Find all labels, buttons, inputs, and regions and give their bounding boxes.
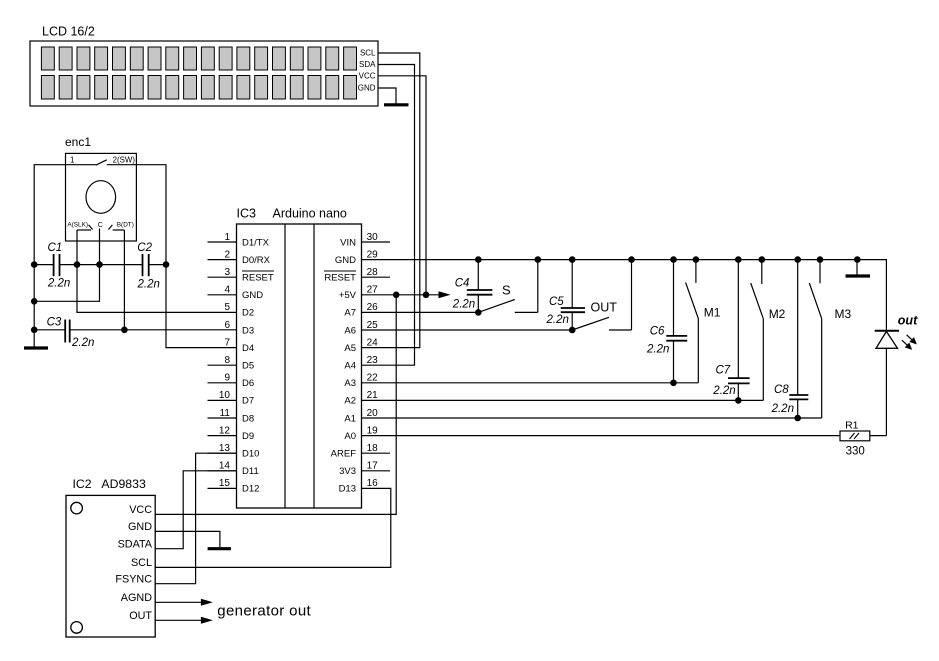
junction dots on D3 net	[31, 327, 38, 334]
IC3 right pin 28 RESET	[362, 276, 391, 278]
svg-text:SCL: SCL	[131, 557, 152, 569]
capacitor C2	[142, 254, 144, 276]
svg-text:D9: D9	[242, 431, 254, 442]
junction dots C7 M2	[735, 256, 742, 263]
svg-text:GND: GND	[242, 290, 263, 301]
wire A1 to M3	[362, 417, 822, 419]
svg-text:D7: D7	[242, 396, 254, 407]
wire IC2 OUT output arrow	[155, 619, 201, 621]
wire encoder A to IC3 D2	[77, 230, 237, 312]
junction dots on +5V wire	[393, 292, 400, 299]
svg-text:15: 15	[219, 478, 231, 489]
svg-text:2.2n: 2.2n	[646, 343, 669, 355]
svg-text:LCD 16/2: LCD 16/2	[42, 25, 95, 39]
wire LCD VCC to +5V net	[378, 76, 426, 295]
svg-text:D10: D10	[242, 449, 259, 460]
svg-text:A4: A4	[344, 361, 356, 372]
svg-text:FSYNC: FSYNC	[115, 573, 152, 585]
svg-text:generator out: generator out	[217, 603, 311, 620]
svg-text:20: 20	[367, 408, 379, 419]
wire C net to C2	[100, 264, 143, 266]
wire encoder pin1 to left ground rail	[34, 165, 96, 347]
IC3 left pin 14 D11	[208, 470, 237, 472]
junction dots C8 M3	[794, 256, 801, 263]
svg-text:22: 22	[367, 373, 379, 384]
svg-text:2(SW): 2(SW)	[113, 156, 136, 165]
wire A2 to M2	[362, 399, 764, 401]
IC3 left pin 12 D9	[208, 435, 237, 437]
resistor R1	[840, 431, 870, 441]
wire IC2 GND to ground	[155, 531, 220, 547]
IC2 AD9833 body	[66, 495, 155, 637]
capacitor C8	[797, 260, 799, 395]
svg-text:D5: D5	[242, 361, 254, 372]
svg-text:C3: C3	[47, 317, 62, 329]
wire IC2 AGND output arrow	[155, 601, 201, 603]
svg-text:AREF: AREF	[331, 449, 357, 460]
svg-text:GND: GND	[335, 255, 356, 266]
svg-text:D11: D11	[242, 466, 259, 477]
wire A7 to C4 node	[362, 311, 479, 313]
junction dots C4 S	[475, 256, 482, 263]
svg-text:1: 1	[224, 232, 230, 243]
wire C2 to right rail	[149, 264, 166, 266]
svg-text:D2: D2	[242, 308, 254, 319]
svg-text:C1: C1	[48, 242, 63, 254]
svg-text:C8: C8	[774, 384, 789, 396]
svg-text:28: 28	[367, 267, 379, 278]
svg-text:7: 7	[224, 337, 230, 348]
switch S	[478, 300, 515, 313]
svg-text:D6: D6	[242, 378, 254, 389]
wire left rail to C3	[34, 329, 65, 331]
svg-text:A5: A5	[344, 343, 356, 354]
svg-text:enc1: enc1	[65, 135, 91, 149]
wire C1 to encoder A net	[60, 264, 78, 266]
IC3 left pin 9 D6	[208, 382, 237, 384]
svg-text:2.2n: 2.2n	[71, 337, 94, 349]
svg-text:GND: GND	[128, 521, 152, 533]
IC3 right pin 18 AREF	[362, 452, 391, 454]
wire encoder A net to C net	[77, 264, 100, 266]
ground symbol on GND net	[856, 260, 858, 275]
svg-text:11: 11	[220, 408, 231, 419]
svg-text:16: 16	[367, 478, 379, 489]
svg-text:2: 2	[224, 249, 230, 260]
svg-text:2.2n: 2.2n	[47, 278, 70, 290]
IC3 left pin 10 D7	[208, 399, 237, 401]
svg-text:9: 9	[224, 373, 230, 384]
ground symbol at IC2	[208, 547, 231, 550]
svg-text:GND: GND	[358, 84, 376, 93]
IC3 left pin 2 D0/RX	[208, 259, 237, 261]
svg-text:27: 27	[367, 285, 379, 296]
svg-text:Arduino nano: Arduino nano	[273, 207, 347, 221]
svg-text:29: 29	[367, 249, 379, 260]
wire LCD SDA to IC3 A4	[362, 65, 415, 366]
svg-text:19: 19	[367, 425, 379, 436]
svg-text:C: C	[98, 222, 103, 229]
svg-text:2.2n: 2.2n	[137, 279, 160, 291]
capacitor C6	[673, 260, 675, 336]
svg-text:D13: D13	[339, 484, 356, 495]
svg-text:D3: D3	[242, 325, 254, 336]
wire GND net from IC3 pin 29 to LED	[362, 260, 887, 331]
svg-text:6: 6	[224, 320, 230, 331]
wire A6 to C5 node	[362, 329, 573, 331]
svg-text:M3: M3	[835, 307, 852, 321]
switch M3	[819, 260, 821, 284]
svg-text:D4: D4	[242, 343, 254, 354]
svg-text:AD9833: AD9833	[101, 477, 146, 491]
encoder enc1 body	[66, 153, 137, 241]
ground symbol at LCD	[384, 103, 409, 106]
svg-text:30: 30	[367, 232, 379, 243]
svg-text:2.2n: 2.2n	[452, 299, 475, 311]
encoder contact bar B	[113, 229, 125, 231]
junction dots C5 OUT	[569, 256, 576, 263]
ground symbol at left rail	[24, 346, 48, 349]
wire A3 to M1	[362, 382, 699, 384]
svg-text:C2: C2	[137, 242, 152, 254]
svg-text:2.2n: 2.2n	[712, 385, 735, 397]
svg-text:A1: A1	[344, 413, 356, 424]
svg-text:OUT: OUT	[129, 610, 152, 622]
wire LCD SCL to IC3 A5	[362, 53, 420, 348]
wire C3 to IC3 D3	[70, 329, 237, 331]
svg-text:OUT: OUT	[591, 300, 618, 314]
svg-text:C7: C7	[716, 365, 731, 377]
svg-text:2.2n: 2.2n	[546, 314, 569, 326]
svg-text:AGND: AGND	[121, 592, 152, 604]
svg-text:D0/RX: D0/RX	[242, 255, 271, 266]
capacitor C4	[477, 260, 479, 290]
svg-text:23: 23	[367, 355, 379, 366]
IC3 left pin 4 GND	[208, 294, 237, 296]
capacitor C3	[64, 320, 66, 343]
svg-text:3: 3	[224, 267, 230, 278]
wire IC2 SDATA to IC3 D11	[155, 471, 236, 549]
svg-text:RESET: RESET	[324, 273, 356, 284]
wire ground rail to C1	[34, 264, 53, 266]
svg-text:1: 1	[70, 156, 74, 165]
IC3 left pin 15 D12	[208, 487, 237, 489]
svg-text:SCL: SCL	[360, 49, 376, 58]
svg-text:C4: C4	[455, 277, 470, 289]
wire encoder C to ground rail	[34, 229, 99, 302]
svg-text:SDATA: SDATA	[118, 538, 153, 550]
svg-text:C6: C6	[650, 325, 665, 337]
svg-text:10: 10	[219, 390, 231, 401]
svg-text:S: S	[502, 283, 511, 298]
svg-text:+5V: +5V	[339, 290, 357, 301]
encoder switch lever SW	[96, 160, 107, 165]
svg-text:out: out	[898, 313, 918, 327]
svg-text:3V3: 3V3	[339, 466, 356, 477]
junction dot encoder C ground	[31, 298, 38, 305]
svg-text:M2: M2	[769, 307, 786, 321]
svg-text:12: 12	[219, 425, 231, 436]
svg-text:26: 26	[367, 302, 379, 313]
svg-text:14: 14	[219, 461, 231, 472]
svg-text:VCC: VCC	[129, 504, 152, 516]
IC3 left pin 8 D5	[208, 364, 237, 366]
switch M1	[695, 260, 697, 283]
wire encoder B down to D3 net	[123, 230, 125, 330]
encoder contact bar A	[77, 229, 91, 231]
svg-text:M1: M1	[704, 305, 721, 319]
svg-text:25: 25	[367, 320, 379, 331]
IC3 left pin 3 RESET	[208, 276, 237, 278]
encoder contact lever A	[89, 225, 93, 230]
wire IC2 VCC to +5V net	[155, 295, 396, 515]
wire LCD GND to ground	[378, 88, 396, 104]
svg-text:D8: D8	[242, 413, 254, 424]
junction dots on encoder cap wire	[31, 261, 38, 268]
wire +5V from IC3 pin 27	[362, 294, 439, 296]
wire A0 to R1	[362, 435, 841, 437]
switch M2	[761, 260, 763, 284]
capacitor C1	[53, 254, 55, 276]
IC3 left pin 1 D1/TX	[208, 241, 237, 243]
svg-text:2.2n: 2.2n	[771, 403, 794, 415]
svg-text:18: 18	[367, 443, 379, 454]
svg-text:17: 17	[367, 461, 379, 472]
svg-text:A(SLK): A(SLK)	[67, 222, 88, 229]
svg-text:SDA: SDA	[359, 60, 376, 69]
svg-text:B(DT): B(DT)	[117, 222, 134, 229]
svg-text:VIN: VIN	[340, 237, 356, 248]
IC3 left pin 11 D8	[208, 417, 237, 419]
LED light arrows	[907, 335, 913, 340]
svg-text:VCC: VCC	[359, 71, 376, 80]
svg-text:A3: A3	[344, 378, 356, 389]
encoder enc1 shaft circle	[86, 181, 116, 214]
IC IC3 Arduino nano body	[237, 224, 362, 508]
svg-text:A7: A7	[344, 308, 356, 319]
svg-text:13: 13	[219, 443, 231, 454]
IC3 right pin 17 3V3	[362, 470, 391, 472]
+5V arrow	[439, 291, 451, 298]
wire R1 to LED cathode lead	[870, 435, 887, 437]
LCD module LCD 16/2 body	[30, 41, 378, 106]
IC3 left pin 13 D10	[208, 452, 237, 454]
encoder contact lever B	[108, 225, 112, 230]
IC3 right pin 30 VIN	[362, 241, 391, 243]
svg-text:R1: R1	[845, 420, 859, 432]
svg-text:A6: A6	[344, 325, 356, 336]
svg-text:IC3: IC3	[237, 207, 257, 221]
svg-text:21: 21	[367, 390, 379, 401]
svg-text:RESET: RESET	[242, 273, 274, 284]
svg-text:C5: C5	[549, 296, 564, 308]
junction dots C6 M1	[670, 256, 677, 263]
svg-text:A2: A2	[344, 396, 356, 407]
wire IC2 SCL to IC3 D13	[155, 488, 391, 567]
svg-text:D1/TX: D1/TX	[242, 237, 270, 248]
svg-text:IC2: IC2	[73, 477, 92, 491]
svg-text:A0: A0	[344, 431, 356, 442]
svg-text:D12: D12	[242, 484, 259, 495]
switch OUT	[572, 317, 609, 330]
svg-text:330: 330	[846, 445, 865, 457]
svg-text:24: 24	[367, 337, 379, 348]
svg-text:5: 5	[224, 302, 230, 313]
svg-text:8: 8	[224, 355, 230, 366]
capacitor C7	[737, 260, 739, 379]
LED D1 out	[875, 330, 899, 332]
svg-text:4: 4	[224, 285, 230, 296]
capacitor C5	[571, 260, 573, 308]
wire IC2 FSYNC to IC3 D10	[155, 453, 236, 584]
wire encoder pin2 to right rail to IC3 D4	[107, 165, 237, 348]
